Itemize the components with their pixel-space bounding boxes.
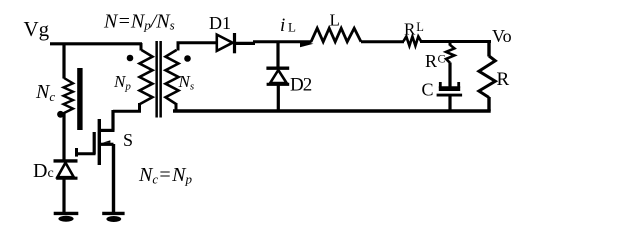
wire drain vertical	[111, 110, 114, 130]
Np polarity dot	[127, 55, 134, 62]
svg-text:L: L	[288, 20, 296, 35]
wire bottom rail	[173, 109, 491, 112]
transistor S (MOSFET)	[99, 129, 115, 132]
svg-text:C: C	[438, 52, 446, 66]
svg-text:R: R	[425, 51, 437, 71]
svg-text:N=Np/Ns: N=Np/Ns	[103, 11, 175, 33]
resistor R	[479, 56, 495, 98]
wire R top lead	[487, 40, 490, 56]
wire L to RL	[361, 40, 404, 43]
svg-text:L: L	[416, 20, 424, 34]
wire Rc to C	[448, 63, 451, 88]
diode D2	[266, 66, 289, 69]
svg-text:R: R	[404, 20, 416, 39]
transformer primary Np winding	[140, 50, 153, 104]
svg-text:C: C	[422, 80, 434, 100]
wire Dc to ground	[62, 179, 65, 212]
wire top rail primary	[50, 42, 142, 45]
diode Dc	[54, 159, 78, 162]
wire RL to corner	[420, 40, 491, 43]
inductor L	[311, 28, 361, 42]
svg-text:D1: D1	[209, 13, 231, 33]
wire D2 branch	[276, 42, 279, 68]
transformer secondary Ns winding	[166, 50, 179, 104]
svg-text:Nc=Np: Nc=Np	[138, 164, 192, 187]
ground right	[102, 212, 124, 215]
resistor RL	[404, 37, 422, 46]
wire Np bottom lead	[138, 103, 141, 111]
Ns polarity dot	[184, 55, 191, 62]
wire Rc branch	[449, 41, 452, 46]
wire R bottom lead	[487, 97, 490, 111]
resistor Rc	[446, 45, 454, 63]
svg-text:i: i	[280, 15, 285, 36]
wire Ns bottom lead	[175, 103, 178, 111]
diode D1	[217, 35, 233, 51]
wire rail transformer to D1	[177, 41, 217, 44]
inductor Nc winding	[64, 78, 74, 113]
svg-text:Vg: Vg	[24, 17, 50, 41]
wire D1 to L	[235, 42, 256, 45]
svg-text:R: R	[497, 69, 510, 90]
wire Np bottom to drain	[113, 110, 141, 113]
wire source to ground	[112, 144, 115, 212]
Nc polarity dot	[57, 111, 64, 118]
wire Nc to Dc	[62, 112, 65, 160]
capacitor C	[439, 86, 460, 91]
wire Np top lead	[140, 43, 143, 51]
svg-text:S: S	[123, 130, 133, 150]
Nc core bar	[77, 68, 82, 130]
svg-text:D2: D2	[290, 75, 312, 96]
svg-text:L: L	[330, 11, 340, 30]
i_L arrowhead	[300, 41, 314, 47]
wire Nc branch drop	[62, 43, 65, 79]
transformer core	[155, 41, 158, 118]
ground left	[54, 212, 79, 215]
wire Ns top lead	[177, 43, 180, 51]
svg-text:Vo: Vo	[492, 26, 512, 46]
